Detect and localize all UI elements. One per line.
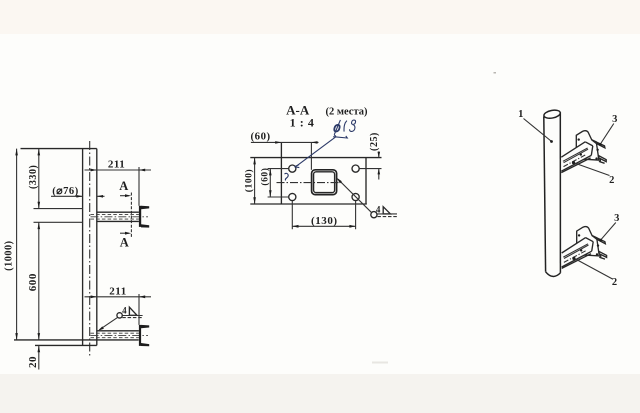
leader 3 upper <box>600 124 613 145</box>
extension line at 600 top <box>34 221 83 223</box>
upper arm top edge <box>97 211 139 213</box>
extension tube-left <box>310 142 312 169</box>
dim (100) <box>254 158 256 204</box>
square tube outer <box>312 170 337 195</box>
svg-text:A: A <box>120 236 130 250</box>
pole left edge <box>544 116 546 271</box>
plate top edge <box>250 157 381 159</box>
svg-text:(⌀76): (⌀76) <box>52 186 79 197</box>
weld flag <box>383 207 390 214</box>
bracket bottom extension line L1 <box>14 339 139 341</box>
pole right edge <box>96 149 98 346</box>
pole left edge <box>82 149 84 346</box>
dimension 600 <box>38 222 40 340</box>
svg-text:(1000): (1000) <box>4 240 15 270</box>
arm bottom-near edge <box>561 155 591 171</box>
arm cap right edge <box>591 146 593 156</box>
pole centerline <box>89 141 91 358</box>
upper channel top flange <box>141 206 149 209</box>
svg-text:1 : 4: 1 : 4 <box>290 115 315 129</box>
dim (130) bottom <box>292 201 355 230</box>
hole extension lines left <box>268 168 289 170</box>
svg-text:3: 3 <box>614 213 620 224</box>
bolt hole bottom-right <box>352 193 359 200</box>
weld circle <box>371 212 377 218</box>
pole right edge <box>559 112 561 273</box>
weld reference lines <box>377 213 397 215</box>
svg-text:(2 места): (2 места) <box>325 107 368 118</box>
upper arm hidden lines <box>91 214 139 216</box>
lower arm centerline <box>91 334 149 336</box>
lower arm hidden lines <box>91 332 139 334</box>
extension line 211 lower <box>138 294 140 325</box>
pole top edge / extension line <box>21 148 97 150</box>
leader dot 2 <box>572 161 575 164</box>
plate right edge <box>365 158 367 204</box>
leader 3 lower <box>601 223 616 240</box>
channel top flange <box>592 140 605 148</box>
section arrow top <box>120 195 129 197</box>
arm tube body <box>561 142 593 171</box>
pole bottom arc <box>546 272 561 277</box>
lower channel web <box>139 325 141 346</box>
channel bottom flange lip <box>599 159 605 164</box>
weld symbol circle <box>117 313 122 318</box>
svg-text:3: 3 <box>612 114 618 125</box>
svg-text:4: 4 <box>376 205 381 215</box>
arm cap top-right edge <box>585 142 593 146</box>
dimension 20 <box>38 345 40 369</box>
weld symbol middle view: leader <box>338 179 371 212</box>
svg-text:1: 1 <box>518 109 524 120</box>
leader 1 <box>524 119 552 142</box>
square tube inner <box>314 172 335 193</box>
channel bottom flange <box>598 156 606 162</box>
channel web plate <box>576 131 599 160</box>
svg-text:4: 4 <box>122 305 127 315</box>
arm centerline <box>564 155 587 167</box>
arm top-far edge <box>561 142 585 157</box>
svg-text:2: 2 <box>612 277 618 288</box>
horizontal centerline <box>277 182 345 184</box>
dim (60) top <box>251 141 319 143</box>
dimension 211 lower <box>85 296 152 298</box>
lower arm top edge <box>97 330 139 332</box>
upper channel bottom flange <box>141 224 149 227</box>
plate bottom edge <box>250 203 366 205</box>
section arrow bottom <box>120 232 129 234</box>
plate left edge <box>280 142 282 204</box>
extension line at 330 bottom <box>34 208 83 210</box>
svg-text:211: 211 <box>109 285 127 297</box>
lower channel top flange <box>141 325 149 328</box>
svg-text:(60): (60) <box>250 130 270 142</box>
upper arm bottom edge <box>97 220 139 222</box>
extension line 211 upper <box>138 167 140 206</box>
pole top ellipse <box>543 109 561 120</box>
handwritten dia 18 note <box>285 120 356 181</box>
weld flag <box>129 307 137 315</box>
bolt dots on plate <box>578 138 580 140</box>
bolt hole top-right <box>352 165 359 172</box>
arm bottom lower edge <box>561 158 590 173</box>
svg-text:211: 211 <box>108 159 126 171</box>
dimension (1000) <box>16 149 18 340</box>
bolt hole bottom-left <box>289 193 296 200</box>
dim (60) left vertical <box>269 169 271 197</box>
pole bottom line L2 <box>35 344 97 346</box>
svg-text:(60): (60) <box>259 168 270 186</box>
lower channel bottom flange <box>141 343 149 346</box>
weld symbol left view: leader <box>100 318 118 330</box>
svg-text:600: 600 <box>27 273 39 291</box>
upper channel web <box>139 206 141 227</box>
arm top-near double edge <box>563 148 588 163</box>
svg-text:(130): (130) <box>311 215 338 227</box>
dimension (330) <box>38 149 40 209</box>
svg-text:A: A <box>119 179 129 193</box>
section line A-A <box>130 193 132 238</box>
svg-text:(25): (25) <box>369 132 380 151</box>
bolt hole top-left <box>289 165 296 172</box>
upper arm centerline <box>91 216 149 218</box>
weld reference lines <box>122 315 142 317</box>
svg-text:20: 20 <box>27 356 39 368</box>
leader 2 lower <box>575 259 612 279</box>
stray scan speck <box>494 72 497 74</box>
svg-text:(100): (100) <box>244 169 255 193</box>
svg-text:2: 2 <box>609 175 615 186</box>
dimension 211 upper <box>85 169 152 171</box>
svg-text:(330): (330) <box>28 165 39 189</box>
leader 2 upper <box>575 163 610 176</box>
